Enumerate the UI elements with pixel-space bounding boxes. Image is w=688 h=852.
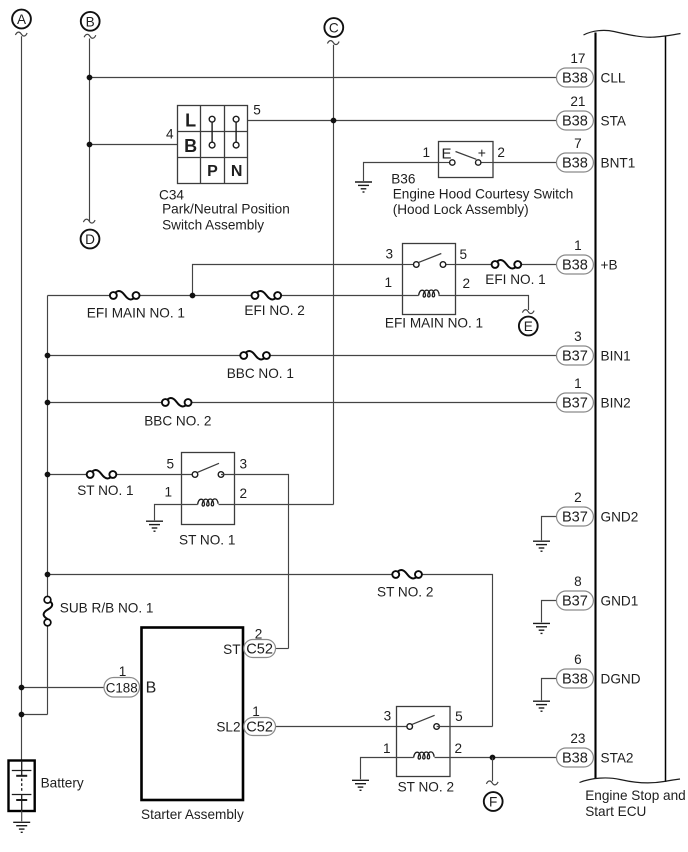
junction bus-BIN2 — [45, 400, 51, 406]
svg-text:B38: B38 — [562, 113, 588, 129]
ground GND1 — [533, 623, 550, 633]
svg-text:Start ECU: Start ECU — [585, 804, 646, 819]
svg-text:BNT1: BNT1 — [601, 155, 636, 170]
fuse EFI NO. 1 — [485, 260, 545, 287]
svg-text:3: 3 — [574, 329, 582, 344]
node C — [324, 18, 343, 44]
svg-text:N: N — [231, 163, 243, 180]
svg-text:ST NO. 1: ST NO. 1 — [77, 483, 133, 498]
hood courtesy switch B36 — [439, 142, 494, 178]
svg-text:C34: C34 — [159, 188, 184, 203]
wire to F — [492, 758, 494, 782]
junction bus-ST2 — [45, 572, 51, 578]
pin 2 label relay ST2 — [455, 741, 463, 756]
connector C52 SL2 — [244, 718, 410, 736]
junction F — [490, 755, 496, 761]
svg-text:4: 4 — [166, 127, 174, 142]
fuse BBC NO. 1 — [227, 351, 294, 381]
svg-text:5: 5 — [455, 709, 463, 724]
connector B38 STA pin 21 — [557, 94, 627, 130]
fusible link SUB R/B NO. 1 — [44, 596, 154, 625]
wire A rail — [21, 36, 23, 761]
connector B38 BNT1 pin 7 — [557, 136, 636, 172]
relay ST NO. 2 — [397, 707, 493, 777]
svg-text:ST NO. 2: ST NO. 2 — [398, 780, 454, 795]
ECU top wave — [584, 30, 681, 37]
svg-text:B37: B37 — [562, 395, 588, 411]
svg-text:(Hood Lock Assembly): (Hood Lock Assembly) — [393, 202, 529, 217]
svg-text:Engine Stop and: Engine Stop and — [585, 788, 686, 803]
label B terminal — [146, 680, 157, 697]
svg-text:B37: B37 — [562, 348, 588, 364]
fuse EFI MAIN NO. 1 — [87, 291, 185, 321]
pin 2 label relay EFI — [463, 276, 471, 291]
wire ST1 pin3 — [221, 475, 289, 649]
connector B38 CLL pin 17 — [557, 51, 626, 87]
connector C188 — [19, 678, 140, 698]
ECU right line — [665, 36, 667, 783]
wire GND2 to ground — [542, 517, 557, 541]
wire BNT1 right — [493, 162, 557, 164]
wire +B fuse segment — [456, 264, 557, 266]
svg-text:E: E — [524, 319, 533, 334]
svg-text:2: 2 — [240, 486, 248, 501]
svg-text:Starter Assembly: Starter Assembly — [141, 807, 244, 822]
connector B37 BIN2 pin 1 — [557, 376, 631, 412]
svg-text:Park/Neutral Position: Park/Neutral Position — [162, 202, 290, 217]
pin 1 label relay ST1 — [164, 485, 172, 500]
pin 1 label B36 — [422, 145, 430, 160]
svg-text:1: 1 — [383, 741, 391, 756]
svg-text:3: 3 — [385, 247, 393, 262]
pin 1 label C188 — [119, 664, 127, 679]
pin 1 label C52 SL2 — [252, 704, 260, 719]
svg-text:B: B — [86, 14, 95, 29]
wire A-bus jog — [22, 714, 48, 716]
junction B-pin4 — [87, 142, 93, 148]
svg-text:SL2: SL2 — [216, 720, 240, 735]
svg-text:3: 3 — [384, 708, 392, 723]
label ECU — [585, 788, 686, 819]
label ST — [223, 642, 240, 657]
ground ST NO.1 — [146, 521, 163, 531]
svg-text:5: 5 — [460, 247, 468, 262]
svg-text:Engine Hood Courtesy Switch: Engine Hood Courtesy Switch — [393, 186, 574, 201]
wire ST1 coil to C rail — [219, 504, 334, 506]
junction B-CLL — [87, 75, 93, 81]
ground battery — [13, 822, 30, 832]
wire F squiggle — [486, 781, 498, 785]
ground GND2 — [533, 541, 550, 551]
wire B rail — [89, 39, 91, 222]
battery — [9, 761, 35, 812]
wire ST1 coil to ground — [155, 505, 198, 521]
wire relay coil to E — [439, 296, 529, 311]
svg-text:1: 1 — [252, 704, 260, 719]
park/neutral position switch C34 — [178, 106, 248, 184]
svg-text:23: 23 — [570, 731, 585, 746]
svg-text:2: 2 — [455, 741, 463, 756]
svg-text:BIN1: BIN1 — [601, 348, 631, 363]
wire battery to ground — [21, 811, 23, 822]
wire pin4 row — [90, 144, 178, 146]
wire C rail — [333, 45, 335, 505]
pin 4 label C34 — [166, 127, 174, 142]
svg-text:GND2: GND2 — [601, 509, 639, 524]
junction bus-BIN1 — [45, 353, 51, 359]
svg-text:A: A — [17, 12, 27, 27]
ground ST NO.2 — [352, 780, 369, 790]
svg-text:D: D — [85, 232, 95, 247]
node E — [519, 317, 538, 336]
wire CLL row — [90, 77, 557, 79]
svg-text:1: 1 — [574, 376, 582, 391]
fuse ST NO. 1 — [77, 470, 133, 498]
ECU left line — [594, 33, 596, 779]
svg-text:2: 2 — [463, 276, 471, 291]
connector B38 +B pin 1 — [557, 238, 618, 274]
svg-text:1: 1 — [574, 238, 582, 253]
connector C52 ST — [244, 640, 289, 658]
svg-text:B38: B38 — [562, 155, 588, 171]
wire BIN1 row — [48, 355, 557, 357]
pin 5 label relay ST2 — [455, 709, 463, 724]
svg-text:B37: B37 — [562, 509, 588, 525]
wire bus rail — [47, 296, 49, 715]
junction bus-ST1 — [45, 472, 51, 478]
wire ST NO.1 row — [48, 474, 196, 476]
svg-text:EFI MAIN NO. 1: EFI MAIN NO. 1 — [87, 306, 185, 321]
connector B38 STA2 pin 23 — [557, 731, 634, 767]
svg-text:EFI MAIN NO. 1: EFI MAIN NO. 1 — [385, 316, 483, 331]
starter assembly box — [142, 628, 244, 801]
connector B37 BIN1 pin 3 — [557, 329, 631, 365]
svg-text:B38: B38 — [562, 257, 588, 273]
node F — [484, 792, 503, 811]
svg-text:SUB R/B NO. 1: SUB R/B NO. 1 — [60, 600, 154, 615]
svg-text:BBC NO. 2: BBC NO. 2 — [144, 414, 211, 429]
pin 3 label relay EFI — [385, 247, 393, 262]
wire bus row — [48, 295, 419, 297]
svg-text:CLL: CLL — [601, 70, 626, 85]
relay ST NO. 1 — [182, 453, 235, 525]
svg-text:BIN2: BIN2 — [601, 395, 631, 410]
connector B37 GND1 pin 8 — [557, 574, 639, 610]
wire GND1 to ground — [542, 601, 557, 623]
pin 5 label relay ST1 — [166, 457, 174, 472]
connector B37 GND2 pin 2 — [557, 490, 639, 526]
wire ST2 coil to ground — [361, 758, 414, 780]
svg-text:STA2: STA2 — [601, 750, 634, 765]
svg-text:ST NO. 2: ST NO. 2 — [377, 585, 433, 600]
pin 3 label relay ST2 — [384, 708, 392, 723]
svg-text:STA: STA — [601, 113, 627, 128]
label C34 — [159, 188, 290, 233]
pin 5 label C34 — [253, 103, 261, 118]
svg-text:C188: C188 — [106, 680, 138, 695]
label starter assembly — [141, 807, 244, 822]
svg-text:17: 17 — [570, 51, 585, 66]
wire BIN2 row — [48, 402, 557, 404]
label relay ST NO. 2 — [398, 780, 454, 795]
relay EFI MAIN NO. 1 — [403, 244, 456, 315]
node A — [12, 10, 31, 36]
svg-text:1: 1 — [119, 664, 127, 679]
wire STA row — [248, 120, 557, 122]
junction C-STA — [331, 118, 337, 124]
fuse ST NO. 2 — [377, 570, 433, 599]
fuse EFI NO. 2 — [244, 291, 304, 318]
svg-text:Battery: Battery — [41, 776, 84, 791]
pin 2 label B36 — [497, 145, 505, 160]
wire ST2 coil to STA2 — [435, 757, 557, 759]
svg-text:Switch Assembly: Switch Assembly — [162, 218, 264, 233]
pin 2 label relay ST1 — [240, 486, 248, 501]
wire +B row left — [193, 265, 403, 296]
wire B rail end squiggle — [83, 219, 95, 223]
svg-text:B38: B38 — [562, 70, 588, 86]
wire DGND to ground — [542, 679, 557, 701]
svg-text:1: 1 — [164, 485, 172, 500]
svg-text:B38: B38 — [562, 671, 588, 687]
svg-text:+: + — [478, 144, 486, 160]
label SL2 — [216, 720, 240, 735]
svg-text:B: B — [146, 680, 157, 697]
node B — [81, 12, 100, 38]
pin 1 label relay EFI — [384, 275, 392, 290]
node D — [81, 230, 100, 249]
label relay ST NO. 1 — [179, 533, 235, 548]
svg-text:E: E — [442, 145, 452, 162]
svg-text:3: 3 — [240, 457, 248, 472]
svg-text:7: 7 — [574, 136, 582, 151]
svg-text:5: 5 — [253, 103, 261, 118]
svg-text:GND1: GND1 — [601, 593, 639, 608]
ECU bottom wave — [580, 778, 681, 783]
svg-text:6: 6 — [574, 652, 582, 667]
svg-text:C52: C52 — [246, 719, 273, 735]
svg-text:BBC NO. 1: BBC NO. 1 — [227, 366, 294, 381]
junction A-jog — [19, 712, 25, 718]
pin 2 label C52 ST — [255, 626, 263, 641]
svg-text:DGND: DGND — [601, 671, 641, 686]
pin 3 label relay ST1 — [240, 457, 248, 472]
svg-text:B38: B38 — [562, 750, 588, 766]
svg-text:EFI NO. 2: EFI NO. 2 — [244, 303, 304, 318]
ground DGND — [533, 701, 550, 711]
svg-text:1: 1 — [422, 145, 430, 160]
svg-text:EFI NO. 1: EFI NO. 1 — [485, 272, 545, 287]
svg-text:2: 2 — [255, 626, 263, 641]
svg-text:+B: +B — [601, 257, 618, 272]
svg-text:2: 2 — [574, 490, 582, 505]
label relay EFI MAIN NO. 1 — [385, 316, 483, 331]
svg-text:B: B — [184, 136, 197, 156]
svg-text:ST NO. 1: ST NO. 1 — [179, 533, 235, 548]
svg-text:C52: C52 — [246, 641, 273, 657]
svg-text:P: P — [207, 163, 218, 180]
svg-text:B36: B36 — [391, 171, 415, 186]
svg-text:ST: ST — [223, 642, 240, 657]
fuse BBC NO. 2 — [144, 398, 211, 428]
pin 5 label relay EFI — [460, 247, 468, 262]
pin 1 label relay ST2 — [383, 741, 391, 756]
connector B38 DGND pin 6 — [557, 652, 641, 688]
ground B36 — [355, 182, 372, 192]
svg-text:C: C — [329, 21, 339, 36]
svg-text:5: 5 — [166, 457, 174, 472]
wire ST NO.2 fuse row — [48, 575, 493, 727]
svg-text:2: 2 — [497, 145, 505, 160]
wire BNT1 left — [364, 163, 439, 182]
svg-text:F: F — [489, 795, 497, 810]
svg-text:B37: B37 — [562, 593, 588, 609]
svg-text:L: L — [185, 110, 196, 130]
label battery — [41, 776, 84, 791]
label B36 — [391, 171, 573, 217]
svg-text:1: 1 — [384, 275, 392, 290]
wire E squiggle — [522, 310, 534, 314]
svg-text:8: 8 — [574, 574, 582, 589]
junction bus-+B — [190, 293, 196, 299]
svg-text:21: 21 — [570, 94, 585, 109]
